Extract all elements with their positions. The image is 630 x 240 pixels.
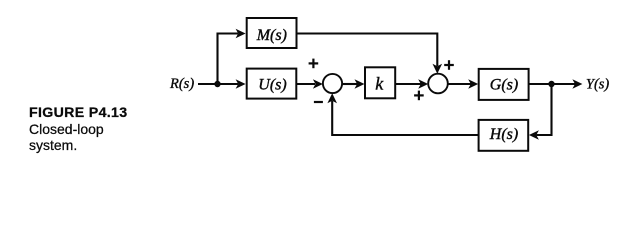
svg-text:Y(s): Y(s): [586, 77, 610, 93]
svg-text:H(s): H(s): [489, 126, 518, 143]
svg-text:M(s): M(s): [256, 27, 287, 44]
svg-text:k: k: [375, 74, 384, 94]
svg-text:G(s): G(s): [490, 76, 518, 93]
svg-text:U(s): U(s): [258, 76, 286, 93]
svg-text:R(s): R(s): [169, 76, 194, 92]
